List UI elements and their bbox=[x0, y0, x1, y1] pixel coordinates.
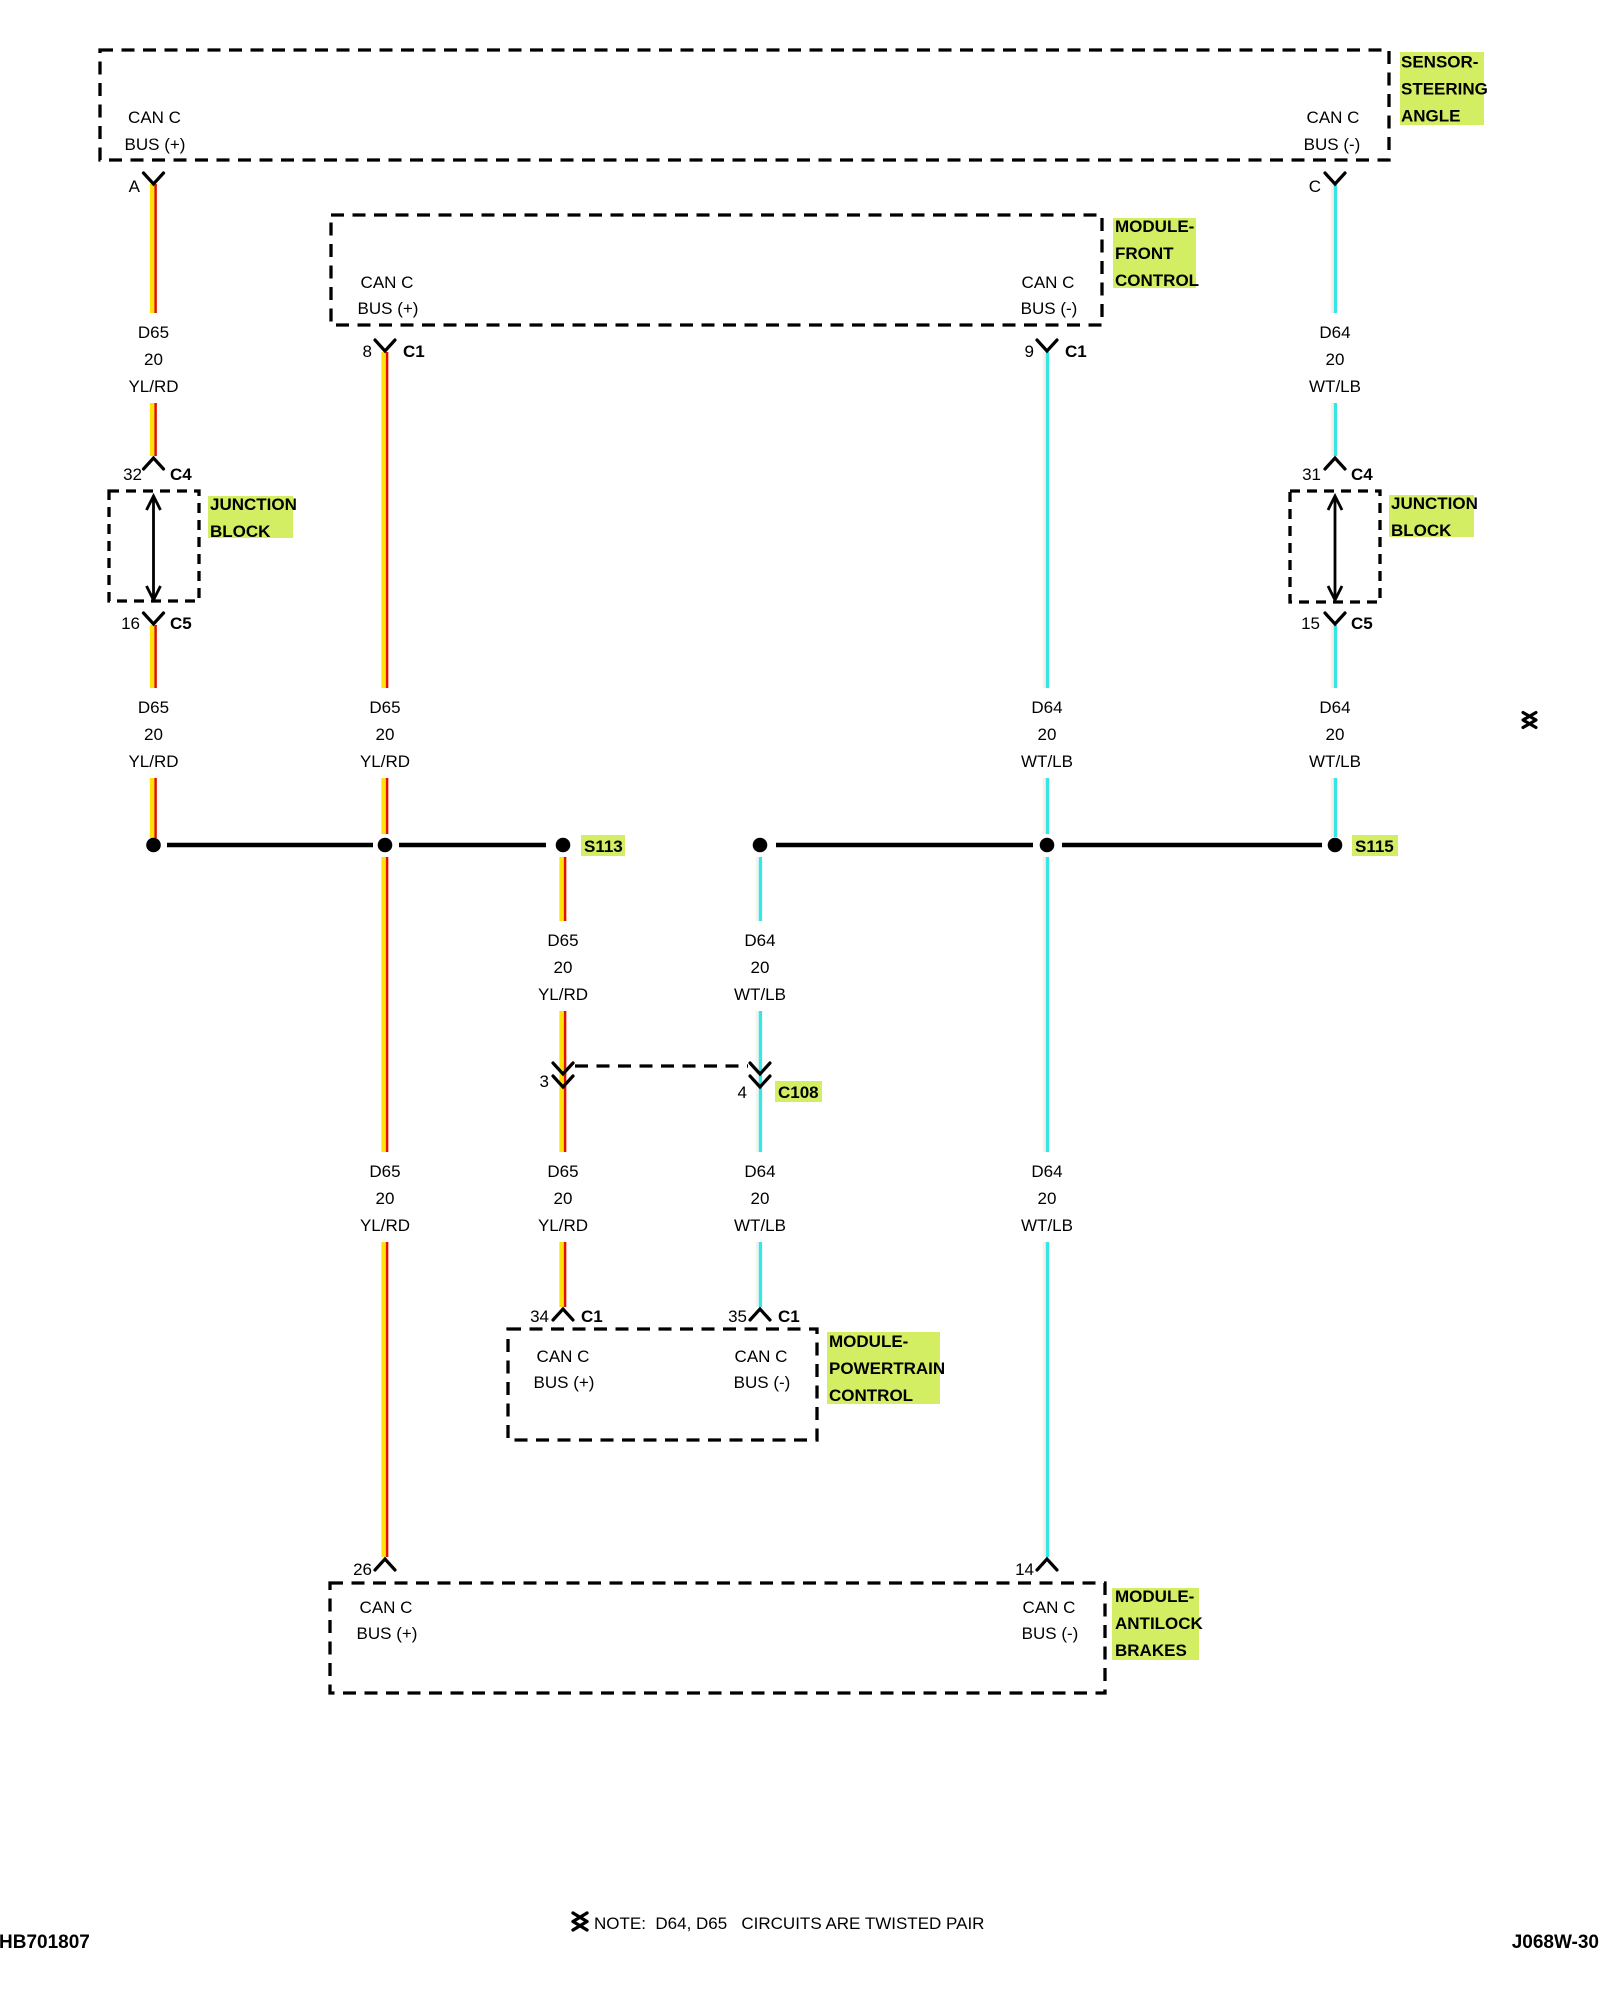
svg-text:WT/LB: WT/LB bbox=[734, 1216, 786, 1235]
svg-text:NOTE: D64, D65 CIRCUITS ARE: NOTE: D64, D65 CIRCUITS ARE TWISTED PAIR bbox=[594, 1914, 984, 1933]
svg-text:C108: C108 bbox=[778, 1083, 819, 1102]
svg-text:BRAKES: BRAKES bbox=[1115, 1641, 1187, 1660]
svg-text:20: 20 bbox=[376, 725, 395, 744]
svg-text:31: 31 bbox=[1302, 465, 1321, 484]
svg-text:YL/RD: YL/RD bbox=[538, 985, 588, 1004]
svg-text:D65: D65 bbox=[369, 698, 400, 717]
svg-text:20: 20 bbox=[144, 725, 163, 744]
svg-text:MODULE-: MODULE- bbox=[1115, 1587, 1194, 1606]
svg-text:20: 20 bbox=[554, 1189, 573, 1208]
svg-text:C1: C1 bbox=[778, 1307, 800, 1326]
svg-text:JUNCTION: JUNCTION bbox=[1391, 494, 1478, 513]
svg-text:34: 34 bbox=[530, 1307, 549, 1326]
svg-text:A: A bbox=[129, 177, 141, 196]
svg-text:S113: S113 bbox=[584, 837, 623, 856]
svg-text:J068W-30: J068W-30 bbox=[1512, 1932, 1599, 1953]
svg-text:BUS (-): BUS (-) bbox=[734, 1373, 791, 1392]
svg-text:WT/LB: WT/LB bbox=[734, 985, 786, 1004]
svg-text:YL/RD: YL/RD bbox=[128, 752, 178, 771]
svg-text:BUS (+): BUS (+) bbox=[357, 1624, 418, 1643]
svg-text:CAN C: CAN C bbox=[361, 273, 414, 292]
svg-text:D65: D65 bbox=[547, 931, 578, 950]
svg-text:POWERTRAIN: POWERTRAIN bbox=[829, 1359, 945, 1378]
svg-text:D64: D64 bbox=[1319, 698, 1350, 717]
svg-text:D64: D64 bbox=[1319, 323, 1350, 342]
svg-text:C: C bbox=[1309, 177, 1321, 196]
svg-text:BUS (+): BUS (+) bbox=[534, 1373, 595, 1392]
svg-text:8: 8 bbox=[363, 342, 372, 361]
svg-text:SENSOR-: SENSOR- bbox=[1401, 53, 1478, 72]
svg-text:26: 26 bbox=[353, 1560, 372, 1579]
svg-text:CAN C: CAN C bbox=[1023, 1598, 1076, 1617]
svg-text:STEERING: STEERING bbox=[1401, 80, 1488, 99]
svg-text:C1: C1 bbox=[403, 342, 425, 361]
svg-text:CAN C: CAN C bbox=[1307, 108, 1360, 127]
svg-text:BUS (-): BUS (-) bbox=[1022, 1624, 1079, 1643]
svg-text:20: 20 bbox=[144, 350, 163, 369]
svg-text:YL/RD: YL/RD bbox=[128, 377, 178, 396]
svg-text:35: 35 bbox=[728, 1307, 747, 1326]
svg-text:YL/RD: YL/RD bbox=[360, 752, 410, 771]
svg-text:CONTROL: CONTROL bbox=[1115, 271, 1199, 290]
svg-text:D65: D65 bbox=[138, 698, 169, 717]
svg-text:20: 20 bbox=[1038, 725, 1057, 744]
svg-text:32: 32 bbox=[123, 465, 142, 484]
svg-text:C4: C4 bbox=[170, 465, 192, 484]
svg-text:C1: C1 bbox=[1065, 342, 1087, 361]
svg-text:20: 20 bbox=[1038, 1189, 1057, 1208]
svg-text:YL/RD: YL/RD bbox=[360, 1216, 410, 1235]
svg-text:C1: C1 bbox=[581, 1307, 603, 1326]
svg-text:WT/LB: WT/LB bbox=[1021, 752, 1073, 771]
svg-text:WT/LB: WT/LB bbox=[1309, 377, 1361, 396]
svg-text:JUNCTION: JUNCTION bbox=[210, 495, 297, 514]
svg-text:CAN C: CAN C bbox=[735, 1347, 788, 1366]
svg-text:D65: D65 bbox=[138, 323, 169, 342]
svg-text:BUS (+): BUS (+) bbox=[125, 135, 186, 154]
svg-text:BUS (-): BUS (-) bbox=[1021, 299, 1078, 318]
svg-text:CONTROL: CONTROL bbox=[829, 1386, 913, 1405]
svg-text:D64: D64 bbox=[744, 1162, 775, 1181]
svg-text:WT/LB: WT/LB bbox=[1309, 752, 1361, 771]
svg-text:C5: C5 bbox=[170, 614, 192, 633]
svg-text:20: 20 bbox=[751, 1189, 770, 1208]
svg-text:C4: C4 bbox=[1351, 465, 1373, 484]
svg-text:ANTILOCK: ANTILOCK bbox=[1115, 1614, 1204, 1633]
svg-text:D64: D64 bbox=[1031, 1162, 1062, 1181]
svg-text:HB701807: HB701807 bbox=[0, 1932, 90, 1953]
svg-text:S115: S115 bbox=[1355, 837, 1394, 856]
svg-text:BUS (-): BUS (-) bbox=[1304, 135, 1361, 154]
svg-text:BUS (+): BUS (+) bbox=[358, 299, 419, 318]
svg-text:D65: D65 bbox=[547, 1162, 578, 1181]
svg-text:WT/LB: WT/LB bbox=[1021, 1216, 1073, 1235]
svg-text:20: 20 bbox=[554, 958, 573, 977]
svg-text:CAN C: CAN C bbox=[1022, 273, 1075, 292]
svg-text:20: 20 bbox=[1326, 725, 1345, 744]
svg-text:9: 9 bbox=[1025, 342, 1034, 361]
svg-text:4: 4 bbox=[738, 1083, 747, 1102]
svg-text:20: 20 bbox=[376, 1189, 395, 1208]
svg-text:YL/RD: YL/RD bbox=[538, 1216, 588, 1235]
svg-text:MODULE-: MODULE- bbox=[829, 1332, 908, 1351]
svg-text:BLOCK: BLOCK bbox=[1391, 521, 1452, 540]
svg-text:CAN C: CAN C bbox=[128, 108, 181, 127]
svg-text:3: 3 bbox=[540, 1072, 549, 1091]
svg-text:CAN C: CAN C bbox=[360, 1598, 413, 1617]
svg-text:20: 20 bbox=[751, 958, 770, 977]
svg-text:MODULE-: MODULE- bbox=[1115, 217, 1194, 236]
svg-text:14: 14 bbox=[1015, 1560, 1034, 1579]
svg-text:20: 20 bbox=[1326, 350, 1345, 369]
svg-text:D64: D64 bbox=[744, 931, 775, 950]
svg-text:D64: D64 bbox=[1031, 698, 1062, 717]
svg-text:C5: C5 bbox=[1351, 614, 1373, 633]
svg-text:16: 16 bbox=[121, 614, 140, 633]
svg-text:D65: D65 bbox=[369, 1162, 400, 1181]
svg-text:CAN C: CAN C bbox=[537, 1347, 590, 1366]
svg-text:BLOCK: BLOCK bbox=[210, 522, 271, 541]
svg-text:ANGLE: ANGLE bbox=[1401, 107, 1461, 126]
svg-text:15: 15 bbox=[1301, 614, 1320, 633]
svg-text:FRONT: FRONT bbox=[1115, 244, 1174, 263]
